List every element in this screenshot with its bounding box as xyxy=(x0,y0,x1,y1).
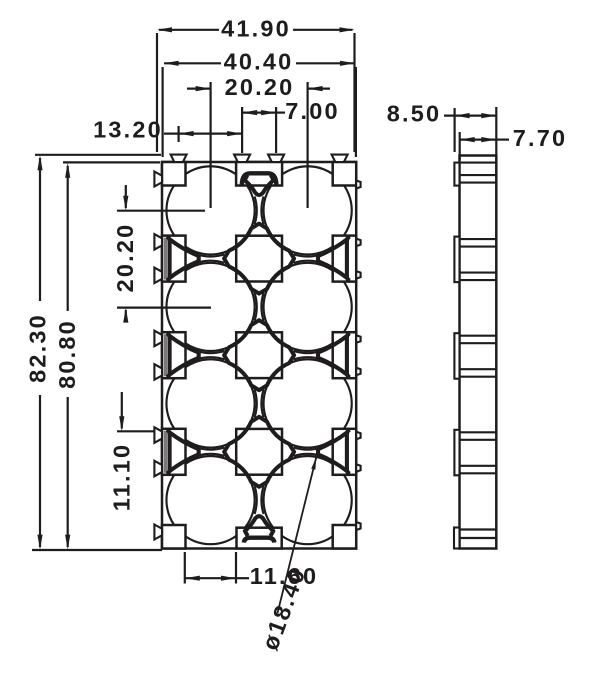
left clip y=524 xyxy=(154,525,162,540)
right clip y=271 xyxy=(356,271,360,279)
left tab grey strip row 3 xyxy=(164,431,167,473)
svg-text:7.70: 7.70 xyxy=(513,125,568,151)
svg-text:8.50: 8.50 xyxy=(387,101,442,127)
side view junction lines row 1 xyxy=(460,239,497,280)
right edge tab row 2 xyxy=(333,332,357,378)
svg-text:11.10: 11.10 xyxy=(109,443,135,512)
thick astroid web row 1 xyxy=(224,224,294,294)
svg-text:13.20: 13.20 xyxy=(93,117,163,143)
side view body outline xyxy=(460,156,497,549)
right clip y=368 xyxy=(356,368,360,376)
top clip at x=242.1 xyxy=(234,155,250,162)
right thick wedge row 2 xyxy=(318,333,350,377)
right clip y=522 xyxy=(356,522,360,530)
right clip y=180 xyxy=(356,181,360,189)
right clip y=335 xyxy=(356,335,360,343)
dimension 20.20 top xyxy=(187,74,330,208)
right clip y=432 xyxy=(356,432,360,440)
dimension 8.50 xyxy=(387,101,497,156)
corner tab bottom-right xyxy=(333,525,357,549)
thick astroid web row 3 xyxy=(224,417,294,487)
interior junction square row 3 xyxy=(236,429,282,475)
side view tab row 1 xyxy=(454,237,459,283)
right clip y=239 xyxy=(356,239,360,247)
left clip y=461 xyxy=(154,461,162,477)
left clip y=364 xyxy=(154,364,162,380)
side view top tab xyxy=(454,163,459,186)
corner tab top-right xyxy=(333,162,357,186)
dimension 11.60 xyxy=(185,552,318,589)
left edge tab row 3 xyxy=(162,429,186,475)
bottom centre tab xyxy=(237,528,282,549)
svg-text:80.80: 80.80 xyxy=(54,319,80,389)
left tab grey strip row 1 xyxy=(164,238,167,280)
left clip y=268 xyxy=(154,268,162,284)
right clip y=464 xyxy=(356,464,360,472)
svg-text:40.40: 40.40 xyxy=(224,49,294,75)
dimension 41.90 xyxy=(157,16,355,152)
left thick wedge row 1 xyxy=(166,237,198,281)
side view bottom tab xyxy=(454,528,460,549)
right edge tab row 1 xyxy=(333,236,357,282)
dimension 11.10 xyxy=(109,392,155,511)
dimension 82.30 xyxy=(25,155,162,550)
dimension 13.20 xyxy=(93,117,242,143)
thick astroid web row 2 xyxy=(224,320,294,390)
side view junction lines row 2 xyxy=(460,336,497,377)
side view top clip lines xyxy=(460,175,497,183)
cell hole circles (8x diam 18.40) xyxy=(166,166,351,544)
svg-text:82.30: 82.30 xyxy=(25,313,51,383)
right edge tab row 3 xyxy=(333,429,357,475)
top centre tab xyxy=(236,162,282,186)
left clip y=331 xyxy=(154,331,162,347)
top thick wedge (pointing down) xyxy=(242,173,277,195)
svg-text:7.00: 7.00 xyxy=(285,98,340,124)
dimension 7.00 xyxy=(242,98,340,153)
right thick wedge row 1 xyxy=(318,237,350,281)
svg-text:20.20: 20.20 xyxy=(112,223,138,293)
svg-text:41.90: 41.90 xyxy=(221,16,291,42)
corner tab top-left xyxy=(162,162,186,186)
left thick wedge row 2 xyxy=(166,333,198,377)
leader diameter 18.40 xyxy=(257,458,316,654)
dimension 20.20 left xyxy=(112,185,211,323)
side view tab row 2 xyxy=(454,333,459,379)
top clip at x=178.6 xyxy=(171,155,187,162)
svg-text:20.20: 20.20 xyxy=(225,74,295,100)
top clip at x=339.6 xyxy=(332,155,348,162)
side view tab row 3 xyxy=(454,430,459,476)
left clip y=427 xyxy=(154,427,162,443)
top clip at x=276.1 xyxy=(268,155,284,162)
interior junction square row 1 xyxy=(236,236,282,282)
right thick wedge row 3 xyxy=(318,430,350,474)
side view bottom clip lines xyxy=(460,530,497,539)
left thick wedge row 3 xyxy=(166,430,198,474)
left edge tab row 1 xyxy=(162,236,186,282)
front view body outline xyxy=(162,162,356,549)
left clip y=172 xyxy=(154,172,162,187)
interior junction square row 2 xyxy=(236,332,282,378)
dimension 80.80 xyxy=(54,162,160,549)
side view junction lines row 3 xyxy=(460,432,497,473)
corner tab bottom-left xyxy=(162,525,186,549)
rib web outline arcs xyxy=(197,196,322,514)
left tab grey strip row 2 xyxy=(164,334,167,376)
bottom thick wedge (pointing up) xyxy=(244,516,274,542)
side view top cap line xyxy=(460,162,497,164)
left clip y=234 xyxy=(154,234,162,250)
dimension 7.70 xyxy=(460,125,568,160)
dimension 40.40 xyxy=(163,49,356,157)
left edge tab row 2 xyxy=(162,332,186,378)
